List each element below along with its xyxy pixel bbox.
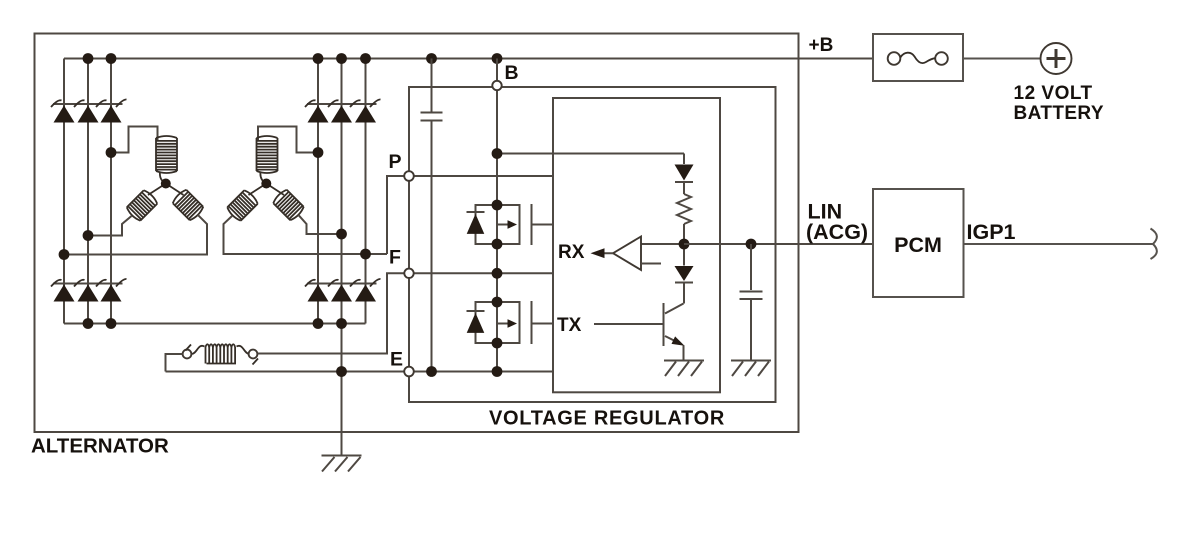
resistor R1 <box>677 194 691 224</box>
svg-text:E: E <box>390 348 403 370</box>
RX buffer U1 <box>613 237 684 271</box>
svg-text:VOLTAGE REGULATOR: VOLTAGE REGULATOR <box>489 408 725 430</box>
fuse box <box>873 34 963 81</box>
wire: IC internal top <box>683 154 685 165</box>
cathode bar right lower diode trio <box>305 279 381 287</box>
wire: rectifier leg 2 (x=88) <box>87 59 89 324</box>
diode D6 <box>355 106 376 123</box>
terminal F <box>404 269 413 278</box>
terminal E <box>404 367 414 377</box>
cathode bar right upper diode trio <box>305 99 381 107</box>
Q1 gate plate <box>531 204 533 245</box>
wire: E line inside alternator <box>166 371 405 373</box>
stator Y1 right coil <box>171 188 204 221</box>
svg-text:F: F <box>389 247 401 269</box>
battery BT1 <box>1041 43 1072 74</box>
wire: fuse to battery <box>963 58 1041 60</box>
terminal B <box>492 81 501 90</box>
wire: ground bus (bottom) <box>64 323 366 325</box>
junction dot phase U2 <box>313 147 324 158</box>
wire: rectifier leg 4 (x=318) <box>317 59 319 324</box>
field winding L1 (rotor) <box>206 344 237 363</box>
diode D2 <box>78 106 99 123</box>
Q2 arrow <box>497 319 517 328</box>
stator Y1 neutral leads <box>148 172 184 196</box>
wire: F line to IC <box>414 272 553 274</box>
stator Y1 neutral junction <box>161 179 171 189</box>
wire: B net vertical (x=497) <box>496 59 498 372</box>
svg-text:P: P <box>389 151 402 173</box>
junction dots on +B bus <box>83 53 503 64</box>
wire: rectifier leg 5 / ground drop (x=341.5) <box>341 59 343 456</box>
svg-text:PCM: PCM <box>894 233 942 257</box>
capacitor C2 <box>740 292 763 300</box>
wire: P line to IC <box>414 175 553 177</box>
cathode bar left lower diode trio <box>51 279 127 287</box>
alternator enclosure box <box>35 34 799 433</box>
diode D4 <box>308 106 329 123</box>
junction dots on Q1 <box>492 148 503 279</box>
brush/slip ring right <box>249 350 258 359</box>
RX arrow <box>591 248 614 258</box>
fuse element <box>888 52 948 65</box>
MOSFET Q1 loop <box>476 205 520 244</box>
svg-text:(ACG): (ACG) <box>806 220 868 244</box>
Q1 gate lead <box>532 224 554 226</box>
wire: rectifier leg 6 (x=365.5) <box>365 59 367 324</box>
stator Y2 right coil <box>272 188 305 221</box>
wire: rectifier leg 1 (x=64) <box>63 59 65 324</box>
junction dot phase V1 <box>83 230 94 241</box>
diode D9 <box>101 285 122 302</box>
diode D13 <box>675 165 694 183</box>
svg-text:12 VOLT: 12 VOLT <box>1014 83 1093 104</box>
wire: capacitor branch (x=431.5) <box>431 59 433 372</box>
transistor Q3 <box>664 283 685 361</box>
Q1 body diode <box>467 212 485 234</box>
svg-text:TX: TX <box>557 315 582 336</box>
stator winding Y2: phase wire to top coil <box>258 127 318 153</box>
brush tick left <box>186 345 192 351</box>
brush/slip ring left <box>183 350 192 359</box>
junction dot phase U1 <box>106 147 117 158</box>
diode D3 <box>101 106 122 123</box>
wire: right brush to F terminal <box>257 273 404 353</box>
wire C2 branch <box>750 244 752 361</box>
capacitor C1 <box>421 113 443 121</box>
MOSFET Q2 loop <box>476 302 520 343</box>
chassis ground (alternator) <box>322 456 362 472</box>
wire: B to IC <box>497 153 684 155</box>
diode D11 <box>331 285 352 302</box>
brush tick right <box>253 359 259 365</box>
PCM box <box>873 189 964 297</box>
stator Y2 right leg wire <box>298 215 341 234</box>
junction dot phase W1 <box>59 249 70 260</box>
diode D12 <box>355 285 376 302</box>
diode D7 <box>54 285 75 302</box>
diode D8 <box>78 285 99 302</box>
svg-text:IGP1: IGP1 <box>967 220 1016 244</box>
stator Y1 right leg wire <box>64 215 207 255</box>
stator Y1 left coil <box>125 189 158 222</box>
diode D14 <box>675 244 694 283</box>
junction dot phase V2 <box>336 229 347 240</box>
wire D13 to R1 <box>683 182 685 194</box>
stator Y2 neutral junction <box>261 179 271 189</box>
stator Y1 top coil <box>156 136 177 173</box>
junction dot LIN node <box>679 239 690 250</box>
ground (IC emitter) <box>664 361 704 377</box>
connector break symbol <box>1151 229 1157 260</box>
ground (C2) <box>731 361 771 377</box>
terminal P <box>404 171 414 181</box>
wire: P lead up to terminal <box>387 176 404 254</box>
junction dots on ground bus <box>83 318 347 329</box>
diode D10 <box>308 285 329 302</box>
regulator IC box <box>553 98 720 392</box>
Q2 gate lead <box>532 323 554 325</box>
wire: LIN line to PCM <box>684 243 873 245</box>
Q2 gate plate <box>531 301 533 344</box>
voltage regulator box <box>409 87 776 402</box>
stator Y2 left leg wire (to P and leg 6) <box>224 216 388 254</box>
svg-text:BATTERY: BATTERY <box>1014 103 1104 124</box>
wire: rectifier leg 3 (x=111) <box>110 59 112 324</box>
svg-text:RX: RX <box>558 242 585 263</box>
wire: IGP1 output <box>964 243 1154 245</box>
wire: +B bus (top) from rectifier to fuse <box>64 58 873 60</box>
Q1 arrow <box>497 220 517 229</box>
stator Y2 top coil <box>257 136 278 173</box>
wire: left brush to E line <box>166 354 183 372</box>
stator Y2 neutral leads <box>249 172 285 196</box>
wire R1 to LIN node <box>683 224 685 244</box>
junction dot E/ground <box>336 366 347 377</box>
Q2 body diode <box>467 311 485 333</box>
stator Y2 left coil <box>226 189 259 222</box>
svg-text:ALTERNATOR: ALTERNATOR <box>31 435 169 458</box>
wire TX to base <box>594 323 664 325</box>
stator winding Y1: phase wire to top coil <box>111 127 158 153</box>
wire: E line inside regulator <box>414 371 553 373</box>
stator Y1 left leg wire <box>88 216 132 236</box>
svg-text:+B: +B <box>809 35 834 56</box>
field winding leads <box>192 346 250 354</box>
junction dot C2 <box>746 239 757 250</box>
diode D5 <box>331 106 352 123</box>
junction dot phase W2 (P tap) <box>360 249 371 260</box>
cathode bar left upper diode trio <box>51 99 127 107</box>
diode D1 <box>54 106 75 123</box>
svg-text:B: B <box>505 62 519 84</box>
junction dots on Q2 <box>426 297 502 377</box>
